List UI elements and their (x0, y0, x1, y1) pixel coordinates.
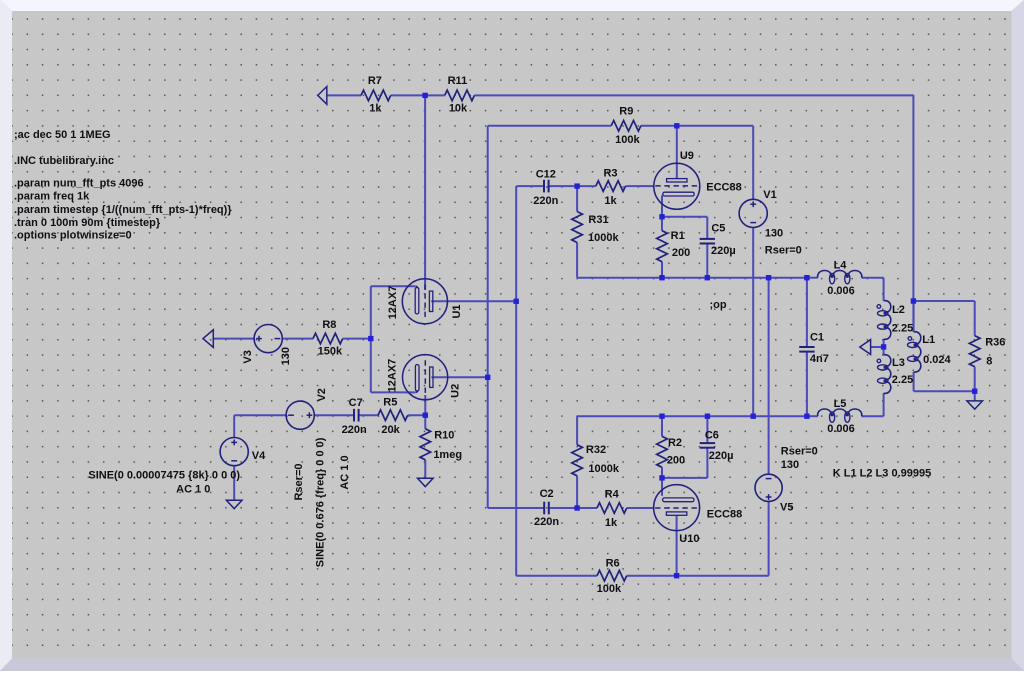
svg-text:L2: L2 (892, 304, 905, 316)
svg-text:8: 8 (986, 356, 992, 368)
svg-text:1k: 1k (369, 103, 382, 115)
svg-text:1meg: 1meg (433, 449, 462, 461)
svg-text:V4: V4 (252, 450, 266, 462)
svg-text:150k: 150k (318, 346, 343, 358)
svg-text:.param num_fft_pts 4096: .param num_fft_pts 4096 (14, 178, 144, 190)
svg-text:.options plotwinsize=0: .options plotwinsize=0 (14, 230, 132, 242)
svg-text:C6: C6 (705, 430, 719, 442)
svg-text:130: 130 (280, 347, 292, 365)
svg-text:2.25: 2.25 (892, 323, 913, 335)
svg-text:AC 1 0: AC 1 0 (176, 483, 210, 495)
svg-text:Rser=0: Rser=0 (293, 463, 305, 500)
svg-text:.tran 0 100m 90m {timestep}: .tran 0 100m 90m {timestep} (14, 217, 161, 229)
svg-text:0.006: 0.006 (827, 285, 855, 297)
svg-text:12AX7: 12AX7 (387, 359, 399, 393)
svg-text:C7: C7 (349, 397, 363, 409)
svg-text:V1: V1 (763, 189, 776, 201)
svg-text:C5: C5 (711, 223, 725, 235)
svg-text:U9: U9 (680, 150, 694, 162)
svg-text:;ac dec 50 1 1MEG: ;ac dec 50 1 1MEG (14, 129, 111, 141)
svg-text:1000k: 1000k (588, 232, 619, 244)
svg-text:SINE(0 0.00007475 {8k} 0 0 0): SINE(0 0.00007475 {8k} 0 0 0) (88, 470, 240, 482)
svg-text:R36: R36 (985, 337, 1005, 349)
svg-text:10k: 10k (449, 103, 468, 115)
svg-text:U10: U10 (679, 533, 699, 545)
svg-text:L1: L1 (922, 334, 935, 346)
svg-text:0.006: 0.006 (827, 423, 855, 435)
svg-text:1k: 1k (605, 517, 618, 529)
svg-text:SINE(0 0.676 {freq} 0 0 0): SINE(0 0.676 {freq} 0 0 0) (315, 437, 327, 567)
svg-text:130: 130 (781, 459, 799, 471)
svg-text:200: 200 (667, 455, 685, 467)
svg-text:0.024: 0.024 (923, 354, 951, 366)
svg-text:200: 200 (672, 247, 690, 259)
svg-text:130: 130 (765, 227, 783, 239)
svg-text:R32: R32 (586, 444, 606, 456)
svg-text:.INC tubelibrary.inc: .INC tubelibrary.inc (14, 155, 114, 167)
svg-text:C12: C12 (536, 168, 556, 180)
svg-text:V5: V5 (780, 502, 793, 514)
svg-text:;op: ;op (709, 299, 726, 311)
svg-text:2.25: 2.25 (892, 374, 913, 386)
svg-text:R9: R9 (619, 106, 633, 118)
svg-text:Rser=0: Rser=0 (765, 245, 802, 257)
svg-text:U2: U2 (450, 384, 462, 398)
svg-text:4n7: 4n7 (810, 353, 829, 365)
svg-text:C1: C1 (810, 332, 824, 344)
svg-text:L3: L3 (892, 357, 905, 369)
svg-text:100k: 100k (615, 134, 640, 146)
svg-text:220n: 220n (534, 516, 559, 528)
svg-text:L5: L5 (834, 398, 847, 410)
svg-text:K L1 L2 L3 0.99995: K L1 L2 L3 0.99995 (833, 468, 931, 480)
svg-text:V3: V3 (242, 350, 254, 363)
svg-text:V2: V2 (316, 388, 328, 401)
svg-text:R2: R2 (668, 437, 682, 449)
svg-text:12AX7: 12AX7 (387, 286, 399, 320)
svg-text:R1: R1 (671, 230, 685, 242)
svg-text:Rser=0: Rser=0 (781, 446, 818, 458)
svg-text:R11: R11 (448, 75, 468, 87)
svg-text:C2: C2 (540, 488, 554, 500)
svg-text:R5: R5 (383, 396, 397, 408)
svg-text:AC 1 0: AC 1 0 (339, 455, 351, 489)
svg-text:ECC88: ECC88 (706, 181, 741, 193)
svg-text:1000k: 1000k (588, 463, 619, 475)
svg-text:1k: 1k (604, 195, 617, 207)
svg-text:R31: R31 (588, 214, 608, 226)
svg-text:20k: 20k (381, 424, 400, 436)
svg-text:R4: R4 (605, 489, 620, 501)
svg-text:220n: 220n (533, 195, 558, 207)
svg-text:R6: R6 (606, 557, 620, 569)
svg-text:220µ: 220µ (711, 245, 736, 257)
svg-text:U1: U1 (451, 304, 463, 318)
svg-text:220n: 220n (342, 424, 367, 436)
svg-text:220µ: 220µ (709, 450, 734, 462)
svg-text:.param freq 1k: .param freq 1k (14, 191, 90, 203)
svg-text:R3: R3 (603, 167, 617, 179)
svg-text:.param timestep {1/((num_fft_p: .param timestep {1/((num_fft_pts-1)*freq… (14, 204, 232, 216)
svg-text:100k: 100k (597, 583, 622, 595)
svg-text:R8: R8 (322, 319, 336, 331)
svg-text:R7: R7 (368, 75, 382, 87)
svg-text:R10: R10 (434, 430, 454, 442)
svg-text:ECC88: ECC88 (707, 508, 742, 520)
svg-text:L4: L4 (834, 259, 848, 271)
